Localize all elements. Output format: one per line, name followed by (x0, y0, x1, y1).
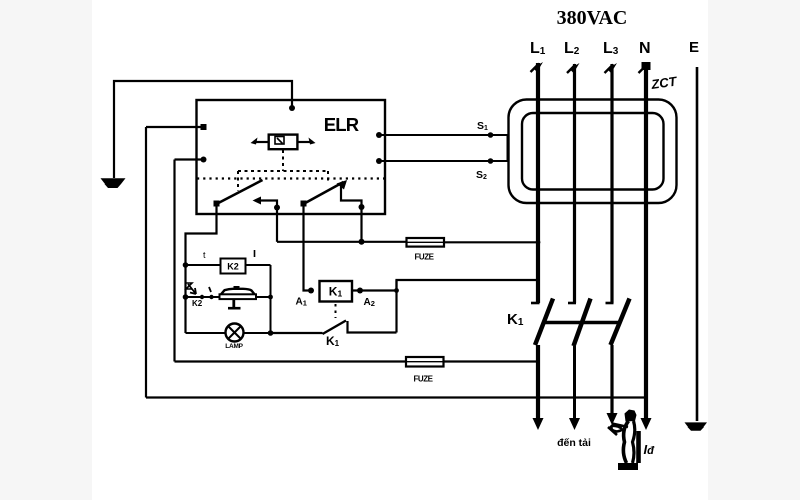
ELR contact switch 1 (214, 180, 281, 211)
svg-text:ELR: ELR (324, 114, 359, 135)
svg-text:LAMP: LAMP (225, 343, 243, 350)
wire A2 node down (395, 280, 397, 333)
wire S1 (379, 132, 508, 138)
label L1 (530, 40, 546, 57)
label den tai (557, 437, 591, 449)
label L3 (603, 40, 619, 57)
wire L3 lower (607, 345, 618, 425)
label E (689, 39, 699, 56)
svg-text:K2: K2 (192, 299, 203, 308)
bell (220, 286, 273, 308)
wire L2 lower (569, 346, 580, 430)
contactor coil K1 (320, 281, 353, 302)
wire A2 to L1 (352, 280, 538, 293)
svg-text:N: N (639, 40, 651, 57)
wire ELR top to ground (114, 81, 295, 178)
svg-text:A2: A2 (364, 297, 375, 308)
label FUZE bottom (414, 375, 434, 384)
ELR terminal right 1 (376, 132, 382, 138)
fuse F1 top (407, 238, 445, 247)
wire left rail outer (145, 127, 147, 398)
svg-text:Iđ: Iđ (644, 442, 656, 457)
wire bottom fuse row (175, 360, 407, 362)
label S2 (476, 169, 487, 181)
label S1 (477, 120, 488, 132)
relay K2 box (186, 250, 271, 274)
svg-text:FUZE: FUZE (415, 253, 435, 262)
ZCT core outer ring (509, 100, 677, 204)
label Id (644, 442, 656, 457)
svg-text:FUZE: FUZE (414, 375, 434, 384)
lamp (186, 324, 274, 342)
label LAMP (225, 343, 243, 350)
coil terminal A1 (296, 288, 315, 308)
ELR terminal right 2 (376, 158, 382, 164)
ELR box U1 (197, 100, 386, 214)
wire N (639, 62, 651, 419)
label ZCT (649, 73, 678, 92)
svg-text:E: E (689, 39, 699, 56)
ELR terminal left 1 (146, 124, 207, 130)
fuse F2 bottom (406, 357, 444, 367)
label K1 main (507, 311, 524, 328)
ELR sensing coil (251, 135, 316, 150)
ZCT core inner ring (522, 113, 664, 190)
wire fuse2 to L1 (444, 360, 540, 362)
wire switch1 NO to fuse line (277, 208, 407, 242)
person touching wire (608, 410, 639, 471)
wire rail B (270, 265, 272, 333)
wire switch2 common to coil A1 (304, 205, 312, 291)
label 380VAC (557, 7, 628, 29)
ELR contact switch 2 (301, 180, 365, 210)
wire bottom neutral row (146, 396, 646, 398)
test button (186, 283, 221, 308)
label ELR (324, 114, 359, 135)
dashed link coil to contacts (282, 150, 284, 171)
wire E with ground (685, 67, 708, 431)
wire L1 lower (533, 345, 544, 430)
coil terminal A2 (357, 288, 375, 309)
wire L1 upper (531, 62, 544, 303)
label K1 aux (326, 334, 340, 348)
wire left rail inner (173, 160, 175, 362)
label FUZE top (415, 253, 435, 262)
dashed linkage bar (238, 171, 328, 191)
dashed link coil to aux contact (335, 304, 337, 318)
contactor main contacts K1 (531, 299, 630, 347)
wire switch2 NO drop (359, 207, 365, 245)
dotted trip line (197, 177, 384, 179)
wire fuse to L1 (444, 240, 540, 245)
svg-text:A1: A1 (296, 297, 307, 308)
ground top-left (101, 178, 126, 188)
label N (639, 40, 651, 57)
node rail A dot K2 row (183, 262, 189, 268)
wire S2 (379, 158, 508, 164)
node rail A dot test row (183, 294, 189, 300)
wire L3 upper (605, 63, 618, 303)
arrow N bottom (641, 418, 652, 430)
wire switch1 common to control rail (186, 205, 217, 334)
svg-text:đến tải: đến tải (557, 437, 591, 449)
wire L2 upper (567, 63, 580, 303)
ZCT secondary connector (507, 135, 509, 161)
label L2 (564, 40, 580, 57)
aux contact K1 (271, 321, 397, 335)
svg-text:380VAC: 380VAC (557, 7, 628, 29)
svg-text:K2: K2 (227, 262, 239, 272)
ELR terminal left 2 (175, 157, 207, 163)
